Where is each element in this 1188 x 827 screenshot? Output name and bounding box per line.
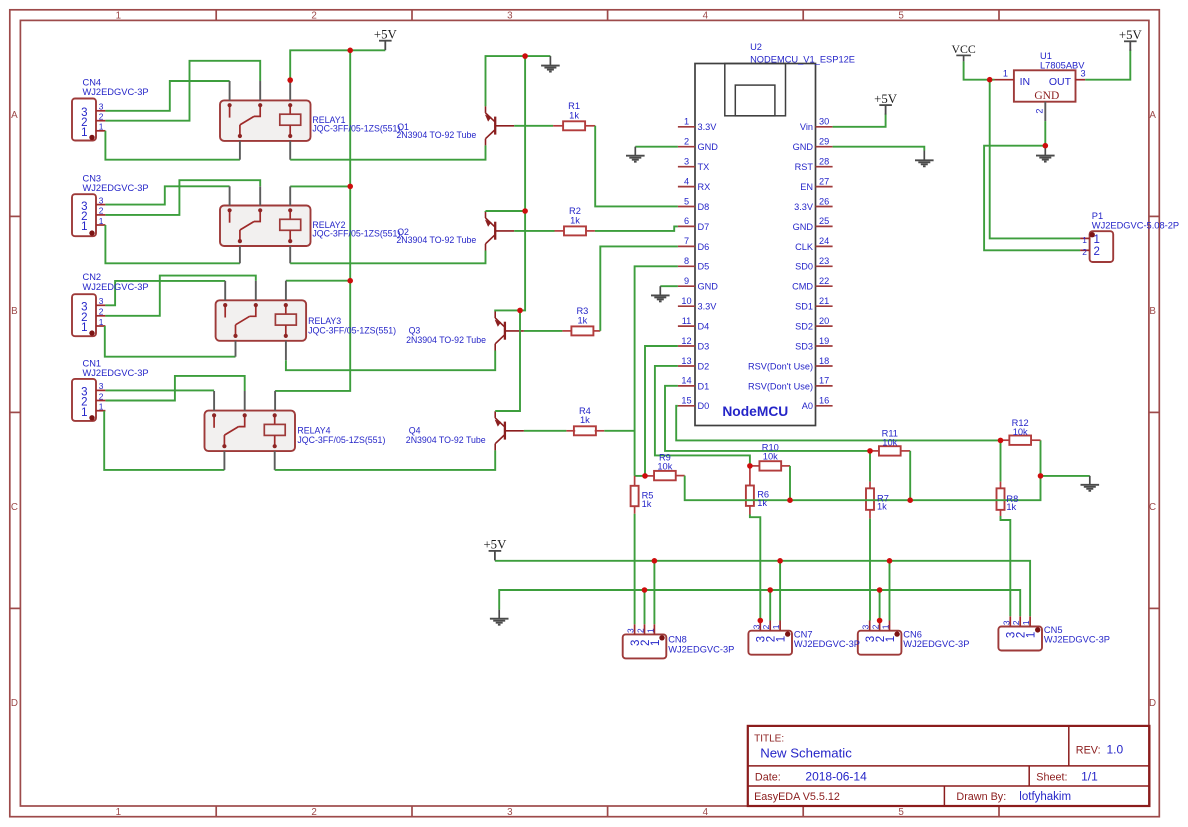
svg-text:1k: 1k xyxy=(577,315,587,325)
svg-text:WJ2EDGVC-3P: WJ2EDGVC-3P xyxy=(83,368,149,378)
svg-text:3: 3 xyxy=(1001,620,1011,625)
svg-text:D8: D8 xyxy=(698,202,710,212)
svg-text:A: A xyxy=(1149,110,1156,121)
svg-text:3: 3 xyxy=(626,628,636,633)
svg-text:CN8: CN8 xyxy=(668,635,687,645)
svg-text:GND: GND xyxy=(698,282,719,292)
svg-text:2: 2 xyxy=(99,307,104,317)
svg-text:D2: D2 xyxy=(698,361,710,371)
svg-text:RSV(Don't Use): RSV(Don't Use) xyxy=(748,381,813,391)
svg-text:2: 2 xyxy=(684,137,689,147)
svg-text:JQC-3FF/05-1ZS(551): JQC-3FF/05-1ZS(551) xyxy=(308,326,396,336)
svg-text:1: 1 xyxy=(116,10,121,21)
svg-text:3.3V: 3.3V xyxy=(794,202,814,212)
svg-text:2: 2 xyxy=(1011,620,1021,625)
svg-text:15: 15 xyxy=(681,396,691,406)
svg-text:3: 3 xyxy=(99,381,104,391)
svg-text:D0: D0 xyxy=(698,401,710,411)
svg-text:CN3: CN3 xyxy=(83,174,102,184)
svg-text:26: 26 xyxy=(819,196,829,206)
svg-text:1: 1 xyxy=(1026,632,1038,638)
svg-text:D3: D3 xyxy=(698,341,710,351)
svg-text:20: 20 xyxy=(819,316,829,326)
svg-text:18: 18 xyxy=(819,356,829,366)
svg-text:EN: EN xyxy=(800,182,813,192)
svg-text:2N3904 TO-92 Tube: 2N3904 TO-92 Tube xyxy=(396,235,476,245)
svg-text:24: 24 xyxy=(819,236,829,246)
svg-text:SD3: SD3 xyxy=(795,341,813,351)
svg-text:C: C xyxy=(1149,502,1156,513)
svg-text:3: 3 xyxy=(507,10,513,21)
svg-text:P1: P1 xyxy=(1092,211,1103,221)
svg-text:SD0: SD0 xyxy=(795,262,813,272)
svg-text:Date:: Date: xyxy=(755,772,781,784)
svg-text:CN2: CN2 xyxy=(83,272,102,282)
svg-text:21: 21 xyxy=(819,296,829,306)
svg-text:New Schematic: New Schematic xyxy=(760,746,852,761)
svg-text:WJ2EDGVC-3P: WJ2EDGVC-3P xyxy=(83,87,149,97)
svg-text:L7805ABV: L7805ABV xyxy=(1040,61,1085,71)
svg-text:14: 14 xyxy=(681,376,691,386)
svg-text:2: 2 xyxy=(1034,108,1044,113)
svg-text:1: 1 xyxy=(881,624,891,629)
svg-text:2: 2 xyxy=(871,624,881,629)
svg-text:D: D xyxy=(1149,698,1156,709)
svg-text:D4: D4 xyxy=(698,322,710,332)
svg-text:SD2: SD2 xyxy=(795,322,813,332)
svg-text:D5: D5 xyxy=(698,262,710,272)
svg-text:7: 7 xyxy=(684,236,689,246)
svg-text:29: 29 xyxy=(819,137,829,147)
svg-text:U1: U1 xyxy=(1040,51,1052,61)
svg-text:WJ2EDGVC-3P: WJ2EDGVC-3P xyxy=(83,282,149,292)
svg-text:WJ2EDGVC-3P: WJ2EDGVC-3P xyxy=(83,183,149,193)
svg-text:2018-06-14: 2018-06-14 xyxy=(805,770,867,784)
svg-text:1.0: 1.0 xyxy=(1107,743,1124,757)
svg-text:11: 11 xyxy=(682,316,692,326)
svg-text:Vin: Vin xyxy=(800,122,813,132)
svg-text:1: 1 xyxy=(645,628,655,633)
svg-text:19: 19 xyxy=(819,336,829,346)
svg-text:CN1: CN1 xyxy=(83,359,102,369)
svg-text:1: 1 xyxy=(99,122,104,132)
svg-text:TX: TX xyxy=(698,162,710,172)
svg-text:JQC-3FF/05-1ZS(551): JQC-3FF/05-1ZS(551) xyxy=(312,124,400,134)
svg-text:CMD: CMD xyxy=(792,282,813,292)
svg-text:WJ2EDGVC-3P: WJ2EDGVC-3P xyxy=(794,639,860,649)
svg-text:2: 2 xyxy=(99,112,104,122)
svg-text:D6: D6 xyxy=(698,242,710,252)
svg-text:VCC: VCC xyxy=(951,42,975,56)
svg-text:TITLE:: TITLE: xyxy=(754,733,784,744)
svg-text:NodeMCU: NodeMCU xyxy=(722,404,788,419)
svg-text:3.3V: 3.3V xyxy=(698,122,718,132)
svg-text:1: 1 xyxy=(81,407,87,419)
svg-text:+5V: +5V xyxy=(483,538,507,552)
svg-text:D7: D7 xyxy=(698,222,710,232)
svg-text:1: 1 xyxy=(99,402,104,412)
svg-text:B: B xyxy=(11,306,18,317)
svg-text:3: 3 xyxy=(99,102,104,112)
svg-text:2: 2 xyxy=(636,628,646,633)
svg-text:2: 2 xyxy=(311,807,316,818)
svg-text:GND: GND xyxy=(793,222,814,232)
svg-text:3: 3 xyxy=(507,807,513,818)
svg-text:A0: A0 xyxy=(802,401,813,411)
svg-text:5: 5 xyxy=(898,10,904,21)
svg-text:+5V: +5V xyxy=(874,92,898,106)
svg-text:10k: 10k xyxy=(1013,427,1028,437)
svg-text:+5V: +5V xyxy=(374,27,398,41)
svg-text:Drawn By:: Drawn By: xyxy=(956,791,1006,803)
svg-text:GND: GND xyxy=(1034,90,1059,102)
svg-text:23: 23 xyxy=(819,256,829,266)
svg-text:CN4: CN4 xyxy=(83,78,102,88)
svg-text:27: 27 xyxy=(819,176,829,186)
svg-text:SD1: SD1 xyxy=(795,302,813,312)
svg-text:4: 4 xyxy=(703,10,709,21)
svg-text:1: 1 xyxy=(776,636,788,642)
svg-text:1k: 1k xyxy=(569,110,579,120)
svg-text:D1: D1 xyxy=(698,381,710,391)
svg-text:17: 17 xyxy=(819,376,829,386)
svg-text:CLK: CLK xyxy=(795,242,814,252)
svg-text:3: 3 xyxy=(861,624,871,629)
svg-text:30: 30 xyxy=(819,117,829,127)
svg-text:1: 1 xyxy=(99,317,104,327)
svg-text:CN5: CN5 xyxy=(1044,625,1063,635)
svg-text:JQC-3FF/05-1ZS(551): JQC-3FF/05-1ZS(551) xyxy=(312,229,400,239)
svg-text:lotfyhakim: lotfyhakim xyxy=(1019,791,1071,803)
svg-text:IN: IN xyxy=(1020,76,1031,88)
svg-text:CN7: CN7 xyxy=(794,629,813,639)
svg-text:A: A xyxy=(11,110,18,121)
svg-text:3: 3 xyxy=(751,624,761,629)
svg-text:4: 4 xyxy=(684,176,689,186)
svg-text:8: 8 xyxy=(684,256,689,266)
svg-text:Sheet:: Sheet: xyxy=(1036,772,1067,784)
svg-text:9: 9 xyxy=(684,276,689,286)
svg-text:1k: 1k xyxy=(877,502,887,512)
svg-text:3.3V: 3.3V xyxy=(698,302,718,312)
svg-text:3: 3 xyxy=(1081,68,1086,78)
svg-text:2: 2 xyxy=(761,624,771,629)
svg-text:WJ2EDGVC-3P: WJ2EDGVC-3P xyxy=(1044,635,1110,645)
svg-text:REV:: REV: xyxy=(1076,745,1101,757)
svg-text:12: 12 xyxy=(681,336,691,346)
svg-text:22: 22 xyxy=(819,276,829,286)
svg-text:Q4: Q4 xyxy=(409,425,421,435)
svg-text:10k: 10k xyxy=(657,461,672,471)
svg-text:1: 1 xyxy=(81,127,87,139)
svg-text:13: 13 xyxy=(681,356,691,366)
svg-text:1k: 1k xyxy=(757,498,767,508)
svg-text:1k: 1k xyxy=(570,215,580,225)
svg-text:2N3904 TO-92 Tube: 2N3904 TO-92 Tube xyxy=(396,130,476,140)
svg-text:1: 1 xyxy=(885,636,897,642)
svg-text:5: 5 xyxy=(898,807,904,818)
svg-text:WJ2EDGVC-3P: WJ2EDGVC-3P xyxy=(903,639,969,649)
svg-text:3: 3 xyxy=(684,157,689,167)
svg-text:JQC-3FF/05-1ZS(551): JQC-3FF/05-1ZS(551) xyxy=(297,435,385,445)
svg-text:1: 1 xyxy=(1082,235,1087,245)
svg-text:6: 6 xyxy=(684,216,689,226)
svg-text:1: 1 xyxy=(650,640,662,646)
svg-text:WJ2EDGVC-3P: WJ2EDGVC-3P xyxy=(668,644,734,654)
svg-text:1: 1 xyxy=(81,221,87,233)
svg-text:CN6: CN6 xyxy=(903,629,922,639)
svg-text:1: 1 xyxy=(81,322,87,334)
svg-text:1k: 1k xyxy=(642,499,652,509)
svg-text:RST: RST xyxy=(795,162,814,172)
svg-text:C: C xyxy=(11,502,18,513)
svg-text:RSV(Don't Use): RSV(Don't Use) xyxy=(748,361,813,371)
svg-text:U2: U2 xyxy=(750,42,762,52)
svg-text:2N3904 TO-92 Tube: 2N3904 TO-92 Tube xyxy=(406,435,486,445)
svg-text:2: 2 xyxy=(1082,247,1087,257)
svg-text:RELAY4: RELAY4 xyxy=(297,425,330,435)
svg-text:4: 4 xyxy=(703,807,709,818)
svg-text:EasyEDA V5.5.12: EasyEDA V5.5.12 xyxy=(754,791,840,803)
svg-text:2: 2 xyxy=(99,206,104,216)
svg-text:10k: 10k xyxy=(882,438,897,448)
svg-text:1: 1 xyxy=(771,624,781,629)
svg-text:B: B xyxy=(1149,306,1156,317)
svg-text:10k: 10k xyxy=(763,452,778,462)
svg-text:1/1: 1/1 xyxy=(1081,770,1098,784)
svg-text:5: 5 xyxy=(684,196,689,206)
svg-text:D: D xyxy=(11,698,18,709)
svg-text:1k: 1k xyxy=(580,415,590,425)
svg-text:2: 2 xyxy=(311,10,316,21)
svg-text:2N3904 TO-92 Tube: 2N3904 TO-92 Tube xyxy=(406,335,486,345)
svg-text:3: 3 xyxy=(99,296,104,306)
svg-text:GND: GND xyxy=(698,142,719,152)
svg-text:RELAY3: RELAY3 xyxy=(308,316,341,326)
svg-text:25: 25 xyxy=(819,216,829,226)
svg-text:+5V: +5V xyxy=(1119,28,1143,42)
svg-text:1: 1 xyxy=(684,117,689,127)
svg-text:16: 16 xyxy=(819,396,829,406)
svg-text:1: 1 xyxy=(1003,68,1008,78)
svg-text:10: 10 xyxy=(681,296,691,306)
svg-text:NODEMCU_V1_ESP12E: NODEMCU_V1_ESP12E xyxy=(750,55,855,65)
svg-text:1k: 1k xyxy=(1006,502,1016,512)
svg-text:GND: GND xyxy=(793,142,814,152)
svg-text:28: 28 xyxy=(819,157,829,167)
svg-text:3: 3 xyxy=(99,195,104,205)
svg-text:2: 2 xyxy=(1094,246,1100,258)
svg-text:1: 1 xyxy=(1021,620,1031,625)
svg-text:RX: RX xyxy=(698,182,711,192)
svg-text:1: 1 xyxy=(116,807,121,818)
svg-text:2: 2 xyxy=(99,391,104,401)
svg-text:WJ2EDGVC-5.08-2P: WJ2EDGVC-5.08-2P xyxy=(1092,221,1179,231)
svg-text:1: 1 xyxy=(99,216,104,226)
svg-text:OUT: OUT xyxy=(1049,76,1072,88)
